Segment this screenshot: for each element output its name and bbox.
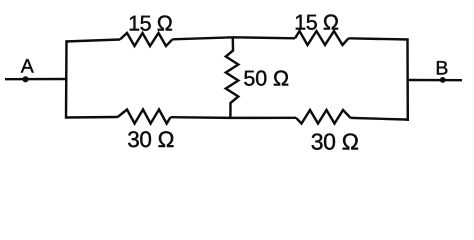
wire left vertical (node A branch)	[65, 40, 68, 118]
resistor R5 (50 ohm, middle vertical) with its connecting leads	[226, 37, 239, 118]
svg-text:30 Ω: 30 Ω	[311, 129, 359, 155]
wire right vertical (node B branch)	[406, 39, 409, 122]
wire bottom right segment	[351, 118, 409, 120]
resistor R4 (30 ohm, bottom right)	[296, 110, 351, 124]
wire bottom middle segment to junction	[171, 116, 297, 119]
svg-text:A: A	[21, 56, 34, 78]
wire top left segment	[66, 40, 121, 42]
resistor R1 (15 ohm, top left)	[120, 33, 173, 46]
wire top middle segment to junction	[173, 37, 296, 39]
node A terminal dot	[22, 76, 28, 82]
node B terminal dot	[440, 77, 446, 83]
wire top right segment	[349, 38, 409, 39]
svg-text:15 Ω: 15 Ω	[128, 12, 173, 36]
wire terminal lead to node A	[5, 78, 66, 81]
wire terminal lead from node B	[408, 79, 462, 82]
svg-text:30 Ω: 30 Ω	[127, 127, 174, 152]
wire bottom left segment	[65, 116, 118, 119]
svg-text:B: B	[435, 58, 448, 80]
svg-text:50 Ω: 50 Ω	[243, 67, 289, 91]
resistor R2 (15 ohm, top right)	[295, 31, 349, 45]
svg-text:15 Ω: 15 Ω	[294, 10, 339, 34]
resistor R3 (30 ohm, bottom left)	[118, 110, 171, 124]
